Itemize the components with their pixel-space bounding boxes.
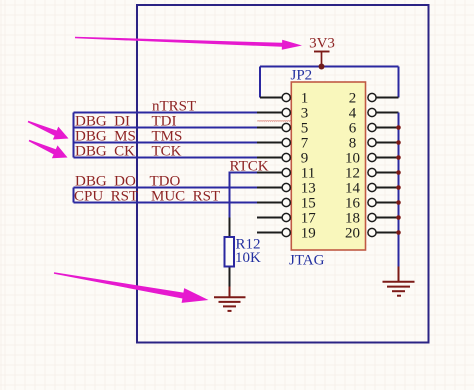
svg-text:CPU RST: CPU RST bbox=[74, 188, 138, 204]
junction pin10 bbox=[396, 155, 401, 160]
pin 20 bbox=[345, 226, 399, 242]
svg-text:6: 6 bbox=[349, 121, 357, 137]
wire 3V3 top rail bbox=[260, 66, 399, 68]
annotation arrow 3 (to DBG CK) bbox=[29, 140, 68, 158]
svg-text:TCK: TCK bbox=[152, 143, 182, 159]
svg-text:4: 4 bbox=[349, 106, 357, 122]
svg-text:DBG DO: DBG DO bbox=[75, 173, 136, 189]
svg-text:JTAG: JTAG bbox=[289, 253, 325, 269]
svg-text:16: 16 bbox=[345, 196, 361, 212]
wire TDO bbox=[74, 187, 259, 189]
pin 10 bbox=[345, 151, 399, 167]
svg-text:7: 7 bbox=[301, 136, 309, 152]
ground left bbox=[214, 287, 246, 311]
ground right bbox=[383, 267, 415, 296]
pin 12 bbox=[345, 166, 399, 182]
svg-text:15: 15 bbox=[301, 196, 316, 212]
svg-text:1: 1 bbox=[301, 91, 309, 107]
junction pin14 bbox=[396, 185, 401, 190]
sheet border frame bbox=[137, 5, 429, 343]
port tick upper group bbox=[73, 113, 75, 158]
svg-text:8: 8 bbox=[349, 136, 357, 152]
svg-text:TDO: TDO bbox=[150, 173, 181, 189]
junction pin8 bbox=[396, 140, 401, 145]
svg-text:5: 5 bbox=[301, 121, 309, 137]
junction pin18 bbox=[396, 215, 401, 220]
svg-text:TMS: TMS bbox=[152, 128, 183, 144]
svg-text:11: 11 bbox=[301, 166, 315, 182]
svg-text:3V3: 3V3 bbox=[309, 36, 335, 52]
pin 4 bbox=[349, 106, 399, 122]
pin 3 bbox=[257, 106, 308, 122]
wire pin1 drop bbox=[259, 67, 261, 98]
svg-text:10K: 10K bbox=[235, 250, 261, 266]
pin 9 bbox=[257, 151, 308, 167]
wire TMS bbox=[74, 142, 259, 144]
svg-text:2: 2 bbox=[349, 91, 357, 107]
svg-text:10: 10 bbox=[345, 151, 360, 167]
pin 7 bbox=[257, 136, 309, 152]
svg-text:nTRST: nTRST bbox=[152, 98, 196, 114]
svg-text:19: 19 bbox=[301, 226, 316, 242]
pin 14 bbox=[345, 181, 399, 197]
port tick lower group bbox=[73, 188, 75, 203]
junction 3V3 tap bbox=[319, 64, 325, 70]
junction pin12 bbox=[396, 170, 401, 175]
pin 8 bbox=[349, 136, 399, 152]
pin 5 bbox=[257, 121, 308, 137]
svg-text:DBG MS: DBG MS bbox=[75, 128, 136, 144]
svg-text:3: 3 bbox=[301, 106, 309, 122]
wire pin2 drop bbox=[398, 67, 400, 98]
annotation arrow 1 (to 3V3) bbox=[75, 37, 302, 50]
pin 16 bbox=[345, 196, 399, 212]
wire TDI bbox=[74, 127, 259, 129]
junction pin6 bbox=[396, 125, 401, 130]
wire MUC RST bbox=[74, 202, 259, 204]
wire RTCK bbox=[230, 173, 259, 218]
junction pin20 bbox=[396, 230, 401, 235]
wire TCK bbox=[74, 157, 259, 159]
svg-text:MUC RST: MUC RST bbox=[151, 188, 220, 204]
svg-text:9: 9 bbox=[301, 151, 309, 167]
pin 6 bbox=[349, 121, 399, 137]
pin 15 bbox=[257, 196, 316, 212]
svg-text:18: 18 bbox=[345, 211, 360, 227]
svg-text:14: 14 bbox=[345, 181, 361, 197]
pin 13 bbox=[257, 181, 316, 197]
connector JP2 body bbox=[291, 82, 365, 250]
svg-text:12: 12 bbox=[345, 166, 360, 182]
pin 19 bbox=[257, 226, 316, 242]
wire GND rail right bbox=[398, 113, 400, 267]
power symbol 3V3 bbox=[309, 36, 335, 67]
resistor R12 bbox=[225, 218, 262, 287]
pin 1 bbox=[260, 91, 308, 107]
svg-text:DBG DI: DBG DI bbox=[75, 113, 130, 129]
svg-text:JP2: JP2 bbox=[291, 67, 313, 83]
pin 11 bbox=[257, 166, 315, 182]
junction pin16 bbox=[396, 200, 401, 205]
pin 17 bbox=[257, 211, 316, 227]
annotation arrow 2 (to DBG MS) bbox=[28, 121, 69, 140]
svg-text:13: 13 bbox=[301, 181, 316, 197]
svg-text:TDI: TDI bbox=[152, 113, 177, 129]
annotation arrow 4 (to ground) bbox=[54, 272, 209, 303]
svg-text:20: 20 bbox=[345, 226, 360, 242]
error squiggle under pin 3 bbox=[257, 120, 291, 123]
pin 2 bbox=[349, 91, 399, 107]
wire nTRST bbox=[74, 112, 259, 114]
pin 18 bbox=[345, 211, 399, 227]
svg-text:17: 17 bbox=[301, 211, 317, 227]
svg-text:DBG CK: DBG CK bbox=[75, 143, 135, 159]
